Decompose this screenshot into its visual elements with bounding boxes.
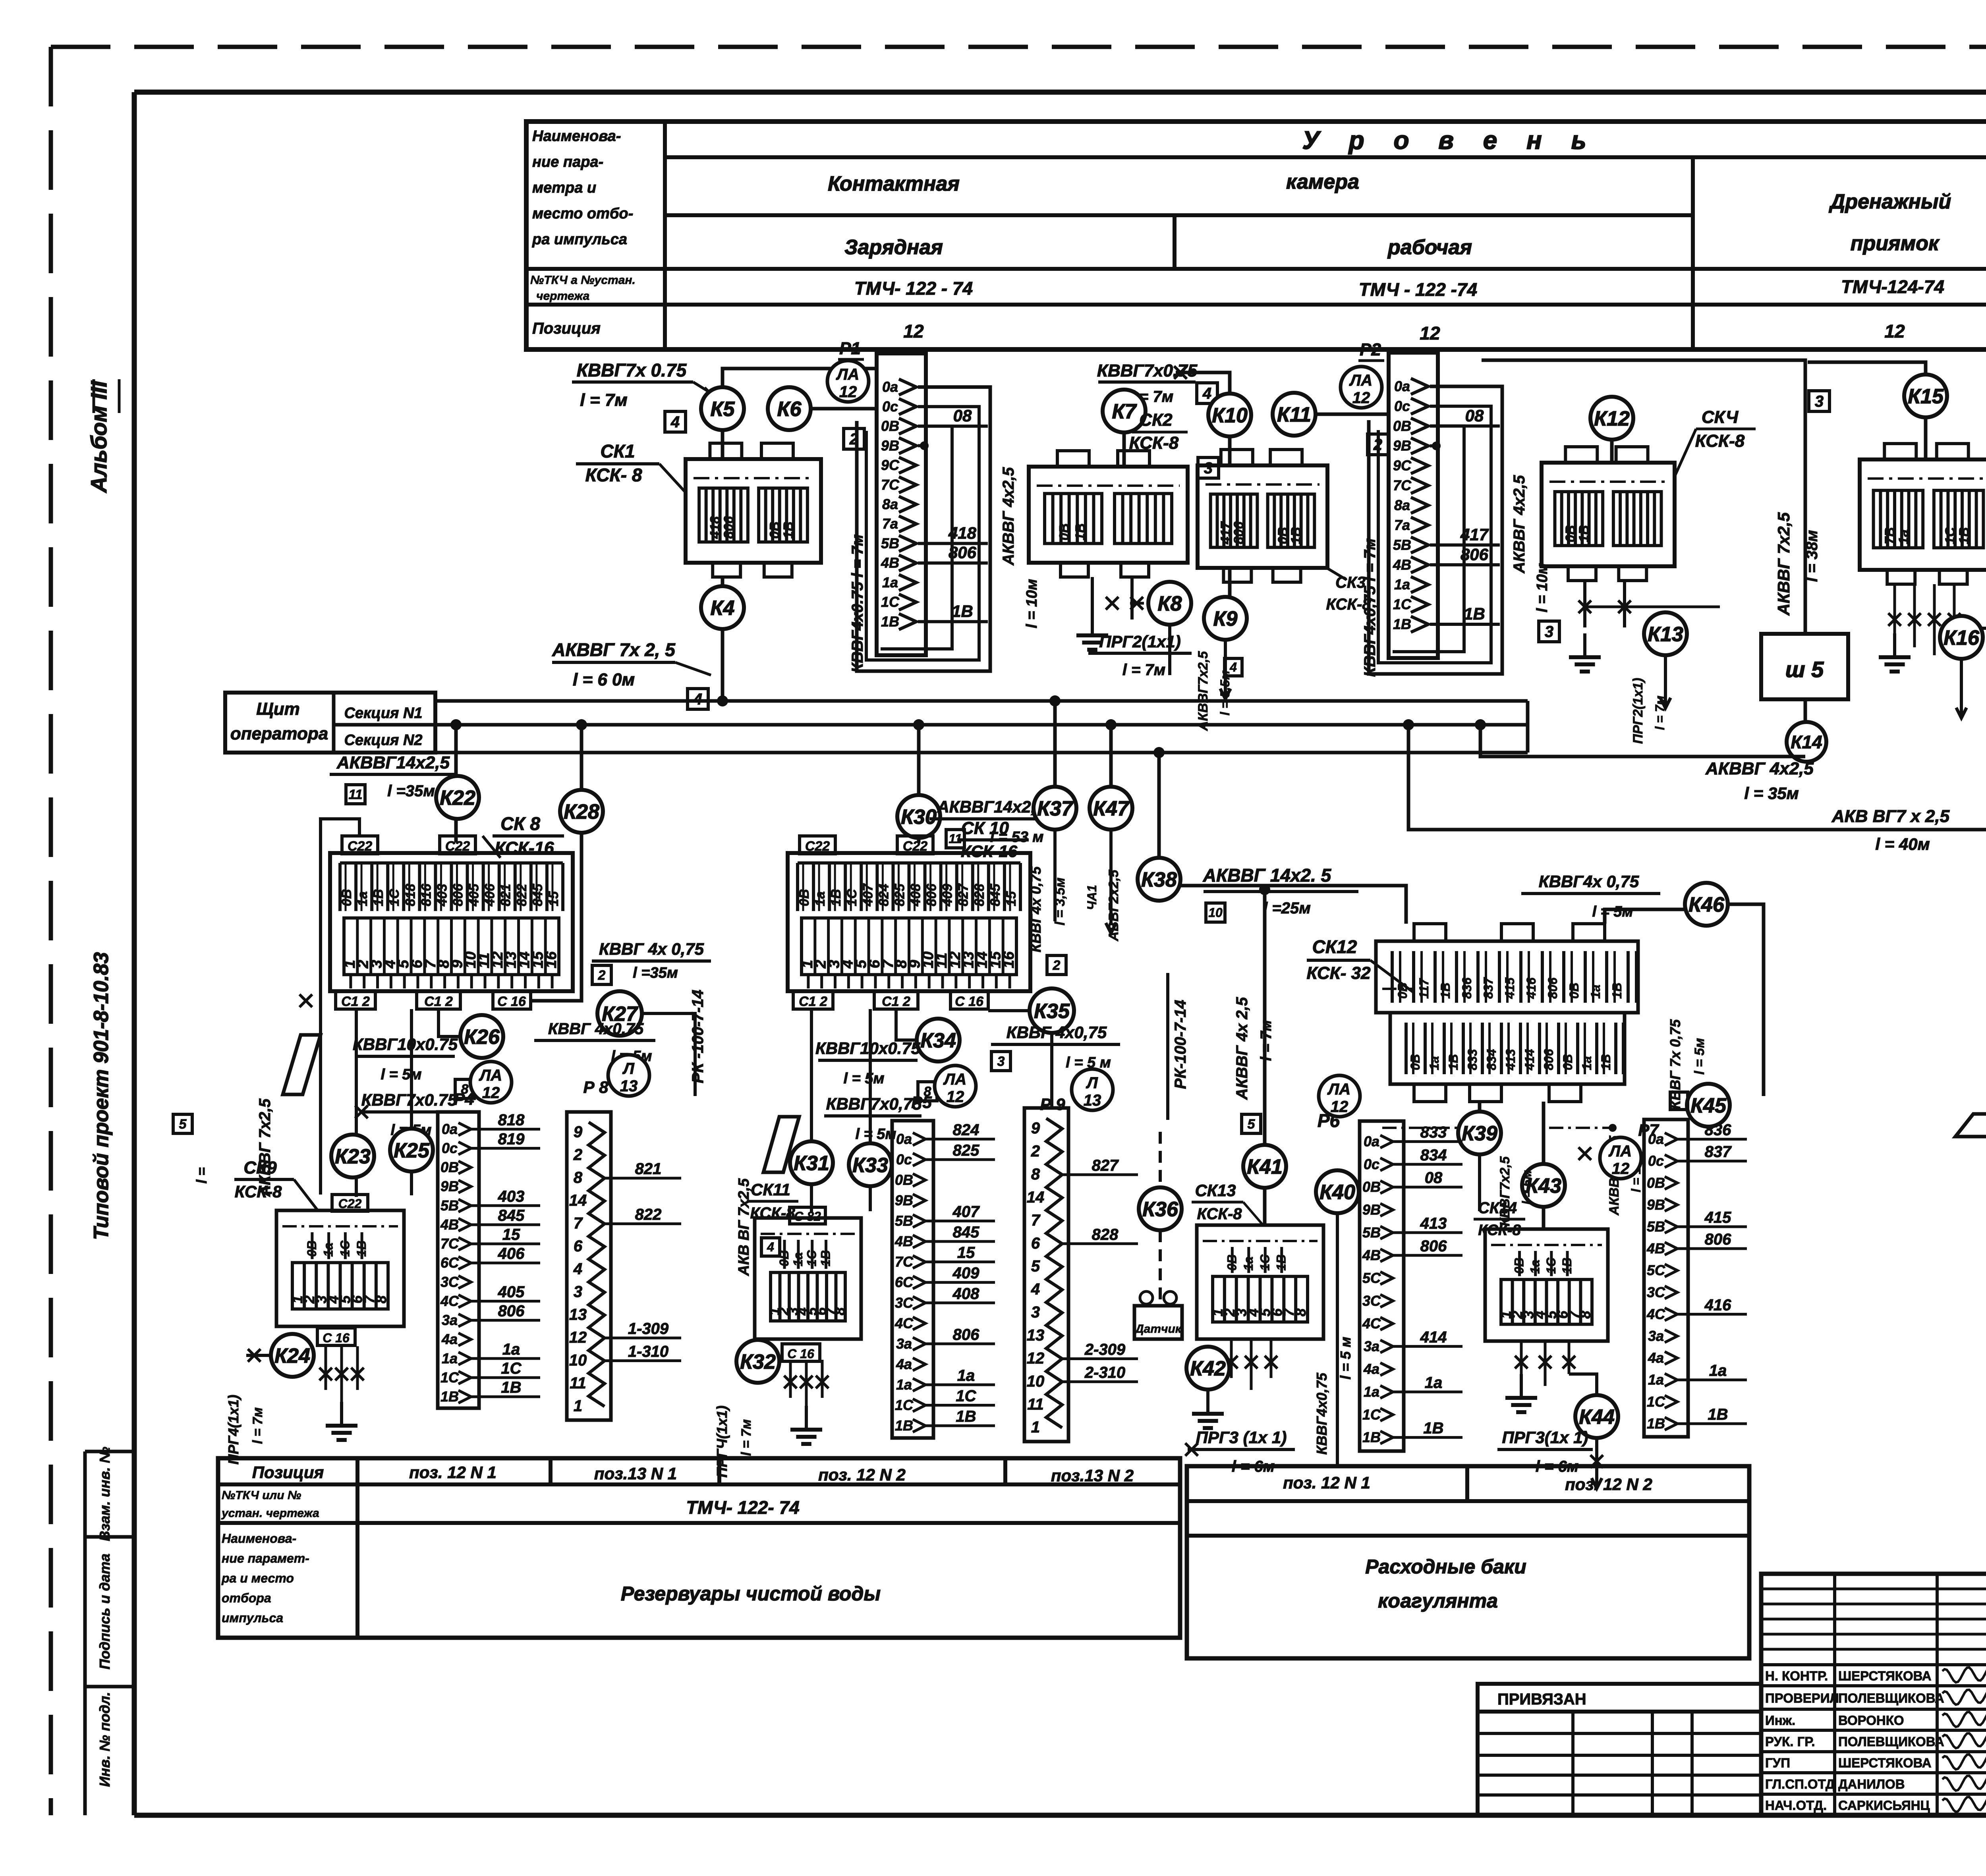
svg-text:К38: К38 bbox=[1141, 869, 1177, 892]
wire to K44 bbox=[1569, 1374, 1597, 1395]
svg-text:4С: 4С bbox=[894, 1315, 914, 1331]
svg-text:1-309: 1-309 bbox=[628, 1320, 669, 1338]
svg-text:КВВГ10х0.75: КВВГ10х0.75 bbox=[353, 1035, 458, 1054]
svg-text:ш 5: ш 5 bbox=[1785, 657, 1824, 682]
circle L13 P9 bbox=[1072, 1069, 1113, 1110]
legend parallelogram bbox=[1955, 1114, 1986, 1137]
svg-text:408: 408 bbox=[908, 884, 923, 907]
svg-text:5В: 5В bbox=[440, 1197, 459, 1214]
svg-text:1а: 1а bbox=[882, 574, 898, 591]
svg-text:К11: К11 bbox=[1277, 403, 1311, 427]
resistor ladder P9 bbox=[1024, 1108, 1138, 1442]
svg-text:ЛА: ЛА bbox=[943, 1071, 966, 1088]
svg-text:АКВВГ14х2,5: АКВВГ14х2,5 bbox=[937, 797, 1045, 816]
label CK4 bbox=[1675, 407, 1756, 477]
svg-text:5С: 5С bbox=[1362, 1270, 1381, 1286]
wire K22 stem bbox=[450, 719, 462, 843]
wire K39 dn bbox=[1478, 1154, 1481, 1211]
svg-text:409: 409 bbox=[952, 1264, 979, 1282]
circle K9 bbox=[1204, 597, 1247, 640]
bt label poziciya bbox=[252, 1463, 324, 1482]
cable marker box 3 ck2 bbox=[1198, 457, 1219, 478]
svg-text:Контактная: Контактная bbox=[828, 172, 960, 195]
svg-text:l = 5м: l = 5м bbox=[1592, 903, 1633, 920]
CK4 bottom stems bbox=[1578, 581, 1720, 627]
svg-text:7С: 7С bbox=[440, 1235, 459, 1252]
svg-text:4С: 4С bbox=[440, 1293, 459, 1309]
cable marker box 2 g3 bbox=[1047, 955, 1066, 975]
svg-text:413: 413 bbox=[1420, 1215, 1447, 1232]
title block staff grid bbox=[1761, 1574, 1986, 1815]
label PRG3 g2 bbox=[1185, 1390, 1295, 1475]
cable label AKVVG7x2.5 40m bbox=[1831, 807, 1950, 853]
bus line N1 bbox=[435, 699, 1528, 703]
circle K28 bbox=[560, 790, 603, 833]
C16 box CK8 bbox=[493, 991, 531, 1009]
svg-text:К14: К14 bbox=[1791, 732, 1822, 753]
numbered box CK11 bbox=[755, 1218, 861, 1339]
svg-text:К39: К39 bbox=[1462, 1122, 1497, 1145]
bottom table left grid bbox=[218, 1458, 1180, 1638]
label P4 bbox=[454, 1090, 474, 1108]
svg-text:Датчик: Датчик bbox=[1134, 1322, 1182, 1336]
bt cell poz12n1 bbox=[409, 1463, 496, 1482]
svg-text:ЛА: ЛА bbox=[479, 1067, 502, 1084]
C22 box CK8 b bbox=[440, 836, 475, 854]
svg-text:1а: 1а bbox=[355, 891, 370, 906]
svg-text:К28: К28 bbox=[564, 801, 599, 824]
label CK11 bbox=[747, 1180, 798, 1222]
wire K41 dn bbox=[1263, 1188, 1267, 1225]
header col kontaktnaya bbox=[828, 170, 1359, 195]
wire K40 dn bbox=[1336, 1213, 1339, 1465]
circle K8 bbox=[1148, 582, 1191, 625]
svg-text:414: 414 bbox=[1522, 1049, 1537, 1071]
label CK9 bbox=[234, 1158, 318, 1210]
svg-text:12: 12 bbox=[1352, 389, 1370, 407]
svg-text:РК-100-7-14: РК-100-7-14 bbox=[1172, 1000, 1189, 1089]
svg-text:САРКИСЬЯНЦ: САРКИСЬЯНЦ bbox=[1838, 1798, 1930, 1813]
svg-text:С 82: С 82 bbox=[794, 1209, 821, 1224]
svg-text:1С: 1С bbox=[881, 594, 900, 610]
svg-text:403: 403 bbox=[498, 1188, 525, 1205]
svg-text:833: 833 bbox=[1465, 1049, 1480, 1070]
svg-text:3С: 3С bbox=[1647, 1284, 1665, 1300]
svg-text:АКВВГ 4х2,5: АКВВГ 4х2,5 bbox=[1511, 475, 1528, 574]
svg-text:1С: 1С bbox=[1393, 596, 1412, 612]
cable label AKVVG4x2.5 P2 bbox=[1511, 475, 1551, 612]
svg-text:С22: С22 bbox=[348, 839, 372, 854]
cable label KVVG4x075 K40 rot bbox=[1314, 1337, 1354, 1455]
circle K24 bbox=[271, 1334, 314, 1377]
svg-text:СК12: СК12 bbox=[1312, 936, 1357, 957]
operator panel label bbox=[230, 699, 328, 743]
wire sh5 to K14 bbox=[1804, 699, 1807, 757]
svg-text:СК 8: СК 8 bbox=[500, 813, 540, 834]
numbered box CK14 bbox=[1485, 1229, 1608, 1341]
svg-text:3а: 3а bbox=[1648, 1328, 1664, 1344]
svg-text:403: 403 bbox=[435, 884, 450, 907]
privyazan box bbox=[1478, 1684, 1761, 1712]
circle K40 bbox=[1316, 1170, 1359, 1213]
numbered box CK9 bbox=[276, 1210, 404, 1326]
svg-text:К33: К33 bbox=[852, 1154, 888, 1177]
svg-text:1В: 1В bbox=[881, 613, 899, 629]
svg-text:4а: 4а bbox=[441, 1331, 458, 1347]
svg-text:15: 15 bbox=[957, 1244, 975, 1262]
circle K45 bbox=[1687, 1084, 1730, 1127]
resistor ladder P8 bbox=[567, 1112, 681, 1420]
svg-text:СК2: СК2 bbox=[1139, 410, 1173, 430]
svg-text:ПРОВЕРИЛ: ПРОВЕРИЛ bbox=[1765, 1691, 1839, 1706]
circle K44 bbox=[1575, 1395, 1618, 1438]
svg-text:КВВГ4х 0,75: КВВГ4х 0,75 bbox=[1539, 872, 1639, 891]
svg-text:1-310: 1-310 bbox=[628, 1343, 668, 1361]
label P5 bbox=[911, 1093, 932, 1112]
circle K4 bbox=[701, 586, 744, 629]
circle K22 bbox=[436, 776, 479, 819]
svg-text:С 16: С 16 bbox=[787, 1347, 814, 1361]
ladder P4 bbox=[438, 1111, 540, 1408]
svg-text:1а: 1а bbox=[791, 1252, 805, 1266]
wire K38 to CK12 bbox=[1180, 886, 1406, 924]
C16 box CK11 bbox=[782, 1344, 820, 1361]
svg-text:К7: К7 bbox=[1112, 400, 1137, 423]
svg-text:l = 5 м: l = 5 м bbox=[1337, 1337, 1354, 1380]
svg-text:409: 409 bbox=[940, 884, 955, 907]
svg-text:408: 408 bbox=[952, 1285, 979, 1303]
label AKVVG7x2.5 K9 rot bbox=[1196, 651, 1242, 731]
svg-text:4В: 4В bbox=[894, 1233, 913, 1249]
svg-text:рабочая: рабочая bbox=[1387, 236, 1472, 259]
svg-text:К32: К32 bbox=[740, 1351, 776, 1374]
svg-text:ЛА: ЛА bbox=[836, 366, 859, 383]
svg-text:0В: 0В bbox=[1408, 1054, 1422, 1070]
cable label KVVG7x25 rot K39 bbox=[1497, 1156, 1534, 1226]
svg-text:К36: К36 bbox=[1142, 1198, 1178, 1221]
svg-text:414: 414 bbox=[1420, 1328, 1447, 1346]
svg-text:1В: 1В bbox=[1599, 1054, 1613, 1070]
svg-text:413: 413 bbox=[1503, 1049, 1518, 1071]
wire K28 stem bbox=[576, 719, 587, 790]
cable label AKVVG14x25 25m bbox=[1203, 865, 1358, 922]
svg-text:ра импульса: ра импульса bbox=[532, 231, 627, 248]
wire CK1 to K4 bbox=[721, 577, 724, 586]
svg-text:1С: 1С bbox=[1544, 1257, 1558, 1274]
CK9 bottom stems bbox=[319, 1346, 364, 1402]
svg-text:2-310: 2-310 bbox=[1084, 1364, 1125, 1381]
cable label KVVG10x0.75 g2 bbox=[815, 1039, 937, 1101]
svg-text:4С: 4С bbox=[1646, 1306, 1665, 1322]
svg-text:ЛА: ЛА bbox=[1327, 1081, 1350, 1098]
label CK2 bbox=[1129, 410, 1188, 453]
cable marker box 2 P2 bbox=[1368, 434, 1388, 455]
svg-text:РК -100-7-14: РК -100-7-14 bbox=[689, 990, 707, 1083]
svg-text:836: 836 bbox=[1460, 977, 1474, 999]
svg-text:7а: 7а bbox=[882, 515, 898, 532]
svg-text:1а: 1а bbox=[1588, 984, 1603, 999]
svg-text:АВВГ2х2,5: АВВГ2х2,5 bbox=[1106, 869, 1121, 942]
svg-text:поз. 12 N 2: поз. 12 N 2 bbox=[1565, 1475, 1652, 1494]
svg-text:5В: 5В bbox=[881, 535, 899, 551]
svg-text:5: 5 bbox=[1031, 1258, 1040, 1275]
wire K25 stem bbox=[410, 1009, 413, 1195]
sensor box g2 bbox=[1134, 1291, 1182, 1339]
svg-text:828: 828 bbox=[1092, 1226, 1119, 1243]
svg-text:834: 834 bbox=[1420, 1146, 1447, 1164]
svg-text:АКВВГ 4х 2,5: АКВВГ 4х 2,5 bbox=[1233, 997, 1251, 1100]
svg-text:1В: 1В bbox=[1708, 1406, 1728, 1423]
svg-text:2: 2 bbox=[1373, 436, 1382, 454]
svg-text:К26: К26 bbox=[464, 1026, 500, 1049]
svg-text:13: 13 bbox=[1027, 1327, 1045, 1344]
terminal block CK10 bbox=[788, 853, 1030, 991]
svg-text:8а: 8а bbox=[882, 496, 898, 512]
wire K5 to CK1 bbox=[721, 430, 724, 459]
wire K38 up bbox=[1153, 747, 1165, 858]
wire K15 up bbox=[1808, 362, 1926, 374]
ground CK4 bbox=[1569, 633, 1601, 672]
svg-text:15: 15 bbox=[1004, 891, 1019, 906]
svg-text:15: 15 bbox=[546, 891, 561, 906]
svg-text:5В: 5В bbox=[1393, 537, 1411, 553]
cable marker box 2 P1 bbox=[844, 428, 864, 449]
svg-text:12: 12 bbox=[903, 321, 924, 342]
svg-text:2: 2 bbox=[573, 1146, 582, 1164]
svg-text:1В: 1В bbox=[1464, 604, 1485, 623]
svg-text:806: 806 bbox=[1231, 521, 1246, 544]
circle K11 bbox=[1273, 393, 1316, 436]
svg-text:l = 5м: l = 5м bbox=[843, 1070, 884, 1087]
svg-text:1В: 1В bbox=[1446, 1054, 1461, 1070]
svg-text:08: 08 bbox=[953, 406, 972, 425]
wire K9 dn bbox=[1220, 640, 1231, 699]
privyazan grid bbox=[1478, 1712, 1761, 1815]
svg-text:08: 08 bbox=[1425, 1169, 1443, 1187]
svg-text:7а: 7а bbox=[1394, 517, 1410, 533]
svg-text:5В: 5В bbox=[895, 1213, 913, 1229]
bt label naimen bbox=[221, 1531, 309, 1625]
svg-text:0В: 0В bbox=[1567, 982, 1581, 999]
svg-text:818: 818 bbox=[403, 884, 418, 906]
svg-text:9С: 9С bbox=[1393, 457, 1412, 474]
wire C16 to K35 bbox=[988, 1009, 1030, 1012]
svg-text:4: 4 bbox=[573, 1260, 582, 1278]
svg-text:ЛА: ЛА bbox=[1349, 372, 1372, 389]
svg-text:ПРГ2(1х1): ПРГ2(1х1) bbox=[1099, 632, 1180, 651]
ground CK2 bbox=[1076, 612, 1108, 650]
svg-text:Л: Л bbox=[622, 1060, 635, 1077]
svg-text:поз.13 N 2: поз.13 N 2 bbox=[1051, 1466, 1134, 1485]
svg-text:l = 10м: l = 10м bbox=[1024, 579, 1040, 628]
svg-text:14: 14 bbox=[569, 1192, 587, 1209]
svg-text:ПРГ2(1х1): ПРГ2(1х1) bbox=[1631, 678, 1646, 744]
svg-text:Р4: Р4 bbox=[454, 1090, 474, 1108]
circle K32 bbox=[736, 1340, 779, 1383]
wire K28 dn bbox=[532, 833, 582, 1001]
C82 box CK11 bbox=[790, 1207, 825, 1224]
svg-text:4: 4 bbox=[767, 1240, 774, 1254]
svg-text:833: 833 bbox=[1420, 1124, 1447, 1141]
svg-text:4: 4 bbox=[1202, 385, 1211, 402]
bottom table right grid bbox=[1187, 1466, 1749, 1658]
wire K46 dn bbox=[1728, 904, 1764, 1096]
svg-text:1а: 1а bbox=[1709, 1362, 1727, 1380]
wire K30 stem bbox=[913, 719, 924, 795]
wire K13 dn bbox=[1660, 655, 1671, 708]
cable label KVVG4x075 K46 bbox=[1521, 872, 1660, 920]
svg-text:8: 8 bbox=[1577, 1311, 1594, 1319]
cable label AKVVG7x2.5 38m rot bbox=[1774, 512, 1821, 616]
bt rezervuary bbox=[621, 1583, 881, 1605]
header tmch values bbox=[854, 272, 1986, 300]
bt cell poz13n1 bbox=[594, 1464, 677, 1483]
wire K43 stem bbox=[1542, 1102, 1546, 1229]
sidebar label vzam bbox=[97, 1447, 113, 1541]
svg-text:12: 12 bbox=[569, 1329, 587, 1346]
svg-text:0В: 0В bbox=[1225, 1255, 1239, 1271]
circle K10 bbox=[1208, 394, 1251, 436]
relay box CK3 bbox=[1198, 450, 1327, 582]
svg-text:У р о в е н ь: У р о в е н ь bbox=[1302, 126, 1597, 154]
svg-text:АКВВГ 14х2. 5: АКВВГ 14х2. 5 bbox=[1203, 865, 1332, 886]
svg-text:405: 405 bbox=[498, 1283, 525, 1301]
svg-text:l = 6 0м: l = 6 0м bbox=[573, 670, 635, 689]
svg-text:К30: К30 bbox=[901, 806, 937, 829]
svg-text:1В: 1В bbox=[1393, 616, 1411, 632]
svg-text:9: 9 bbox=[574, 1123, 583, 1141]
svg-text:1а: 1а bbox=[1364, 1384, 1379, 1400]
svg-text:12: 12 bbox=[839, 383, 857, 401]
svg-text:ВОРОНКО: ВОРОНКО bbox=[1838, 1713, 1904, 1728]
cable marker box 3 P2 bbox=[1539, 621, 1559, 642]
svg-text:ТМЧ- 122- 74: ТМЧ- 122- 74 bbox=[686, 1497, 799, 1518]
svg-text:0а: 0а bbox=[896, 1131, 912, 1147]
cable marker box 4 left bbox=[665, 411, 686, 432]
svg-text:К22: К22 bbox=[440, 787, 475, 810]
C12 box CK8 a bbox=[336, 991, 375, 1009]
svg-text:АКВВГ 7х2,5: АКВВГ 7х2,5 bbox=[1774, 512, 1793, 616]
svg-text:РУК. ГР.: РУК. ГР. bbox=[1765, 1734, 1815, 1749]
svg-text:816: 816 bbox=[419, 883, 434, 906]
bt2 rashodnye bbox=[1365, 1556, 1526, 1612]
svg-text:3С: 3С bbox=[440, 1274, 459, 1290]
svg-text:l = 5м: l = 5м bbox=[1520, 1170, 1534, 1204]
svg-text:806: 806 bbox=[1546, 977, 1560, 999]
svg-text:СК14: СК14 bbox=[1478, 1199, 1517, 1217]
svg-text:845: 845 bbox=[530, 883, 545, 906]
svg-text:К4: К4 bbox=[711, 597, 735, 620]
svg-text:Инж.: Инж. bbox=[1765, 1713, 1795, 1728]
svg-text:Секция N2: Секция N2 bbox=[344, 732, 422, 749]
label P9 bbox=[1040, 1095, 1065, 1114]
svg-text:Типовой проект 901-8-10.83: Типовой проект 901-8-10.83 bbox=[90, 952, 113, 1240]
bus line bottom bbox=[435, 701, 1528, 753]
cable label KVVG4x075 35 rot bbox=[1028, 866, 1068, 952]
cable label RK-100-7-14 bbox=[689, 990, 707, 1083]
svg-text:16: 16 bbox=[543, 951, 560, 968]
svg-text:2: 2 bbox=[1053, 958, 1061, 973]
wire K24 left bbox=[246, 1349, 271, 1362]
svg-text:8: 8 bbox=[574, 1169, 583, 1187]
wire K47 stem bbox=[1105, 719, 1117, 787]
svg-text:место отбо-: место отбо- bbox=[532, 205, 633, 222]
svg-text:3С: 3С bbox=[1362, 1293, 1381, 1309]
sidebar strip bbox=[85, 1451, 134, 1815]
svg-text:12: 12 bbox=[1027, 1349, 1045, 1367]
svg-text:С 16: С 16 bbox=[497, 994, 526, 1009]
circle K12 bbox=[1590, 397, 1633, 440]
svg-text:12: 12 bbox=[482, 1084, 500, 1102]
svg-text:405: 405 bbox=[467, 883, 482, 907]
svg-text:К24: К24 bbox=[274, 1345, 310, 1368]
svg-text:КВВГ4х0.75 l = 7м: КВВГ4х0.75 l = 7м bbox=[849, 535, 866, 673]
C22 box CK9 bbox=[332, 1195, 368, 1211]
svg-text:l = 7м: l = 7м bbox=[1258, 1020, 1275, 1061]
svg-text:418: 418 bbox=[948, 523, 977, 542]
svg-text:К47: К47 bbox=[1093, 797, 1130, 820]
svg-text:1В: 1В bbox=[1362, 1429, 1381, 1446]
label PRG4 K24 rot bbox=[225, 1395, 265, 1465]
circle K6 bbox=[768, 387, 811, 430]
svg-text:К16: К16 bbox=[1943, 627, 1980, 650]
svg-text:9С: 9С bbox=[881, 457, 900, 473]
svg-text:8: 8 bbox=[1031, 1166, 1040, 1183]
svg-text:9В: 9В bbox=[1362, 1202, 1381, 1218]
svg-text:11: 11 bbox=[570, 1374, 586, 1392]
svg-text:10: 10 bbox=[1208, 905, 1223, 920]
svg-text:АКВВГ 7х 2, 5: АКВВГ 7х 2, 5 bbox=[552, 639, 676, 660]
CK14 bottom stems bbox=[1515, 1341, 1575, 1386]
svg-text:4а: 4а bbox=[1363, 1361, 1379, 1377]
wire C12a dn K31 bbox=[810, 1009, 813, 1212]
circle K23 bbox=[331, 1135, 374, 1177]
svg-text:Секция N1: Секция N1 bbox=[344, 705, 422, 722]
svg-text:1В: 1В bbox=[895, 1417, 913, 1434]
tipovoy proekt vertical bbox=[90, 952, 113, 1240]
cable label KVVG4x0.75 35m bbox=[592, 940, 711, 984]
svg-text:806: 806 bbox=[1705, 1231, 1731, 1248]
circle K15 bbox=[1904, 374, 1947, 417]
C12 box CK8 b bbox=[417, 991, 460, 1009]
svg-text:К5: К5 bbox=[711, 398, 735, 421]
wire C12 to K26 bbox=[439, 1009, 460, 1036]
svg-text:КВВГ7х0.75: КВВГ7х0.75 bbox=[361, 1090, 457, 1109]
wire K33 stem bbox=[869, 1009, 872, 1211]
ladder P6 bbox=[1360, 1121, 1462, 1451]
svg-text:К6: К6 bbox=[777, 398, 802, 421]
label P6 bbox=[1318, 1110, 1340, 1131]
svg-text:0В: 0В bbox=[1563, 525, 1578, 542]
svg-text:415: 415 bbox=[1503, 977, 1517, 999]
svg-text:К25: К25 bbox=[394, 1139, 430, 1162]
svg-text:К13: К13 bbox=[1648, 623, 1683, 646]
circle K46 bbox=[1685, 883, 1728, 926]
svg-text:К9: К9 bbox=[1213, 608, 1238, 631]
svg-text:ние парамет-: ние парамет- bbox=[222, 1551, 309, 1565]
label CK14 bbox=[1474, 1199, 1525, 1239]
svg-text:1а: 1а bbox=[502, 1341, 520, 1358]
circle K34 bbox=[917, 1019, 960, 1062]
wire K12 dn bbox=[1610, 440, 1614, 463]
svg-text:9: 9 bbox=[1031, 1119, 1040, 1137]
svg-text:С22: С22 bbox=[903, 839, 927, 854]
bt2 poz12n1 bbox=[1283, 1473, 1370, 1492]
svg-text:С 16: С 16 bbox=[955, 994, 984, 1009]
wire K41 up bbox=[1259, 884, 1270, 1145]
svg-text:827: 827 bbox=[1092, 1157, 1119, 1174]
circle K25 bbox=[390, 1129, 433, 1172]
